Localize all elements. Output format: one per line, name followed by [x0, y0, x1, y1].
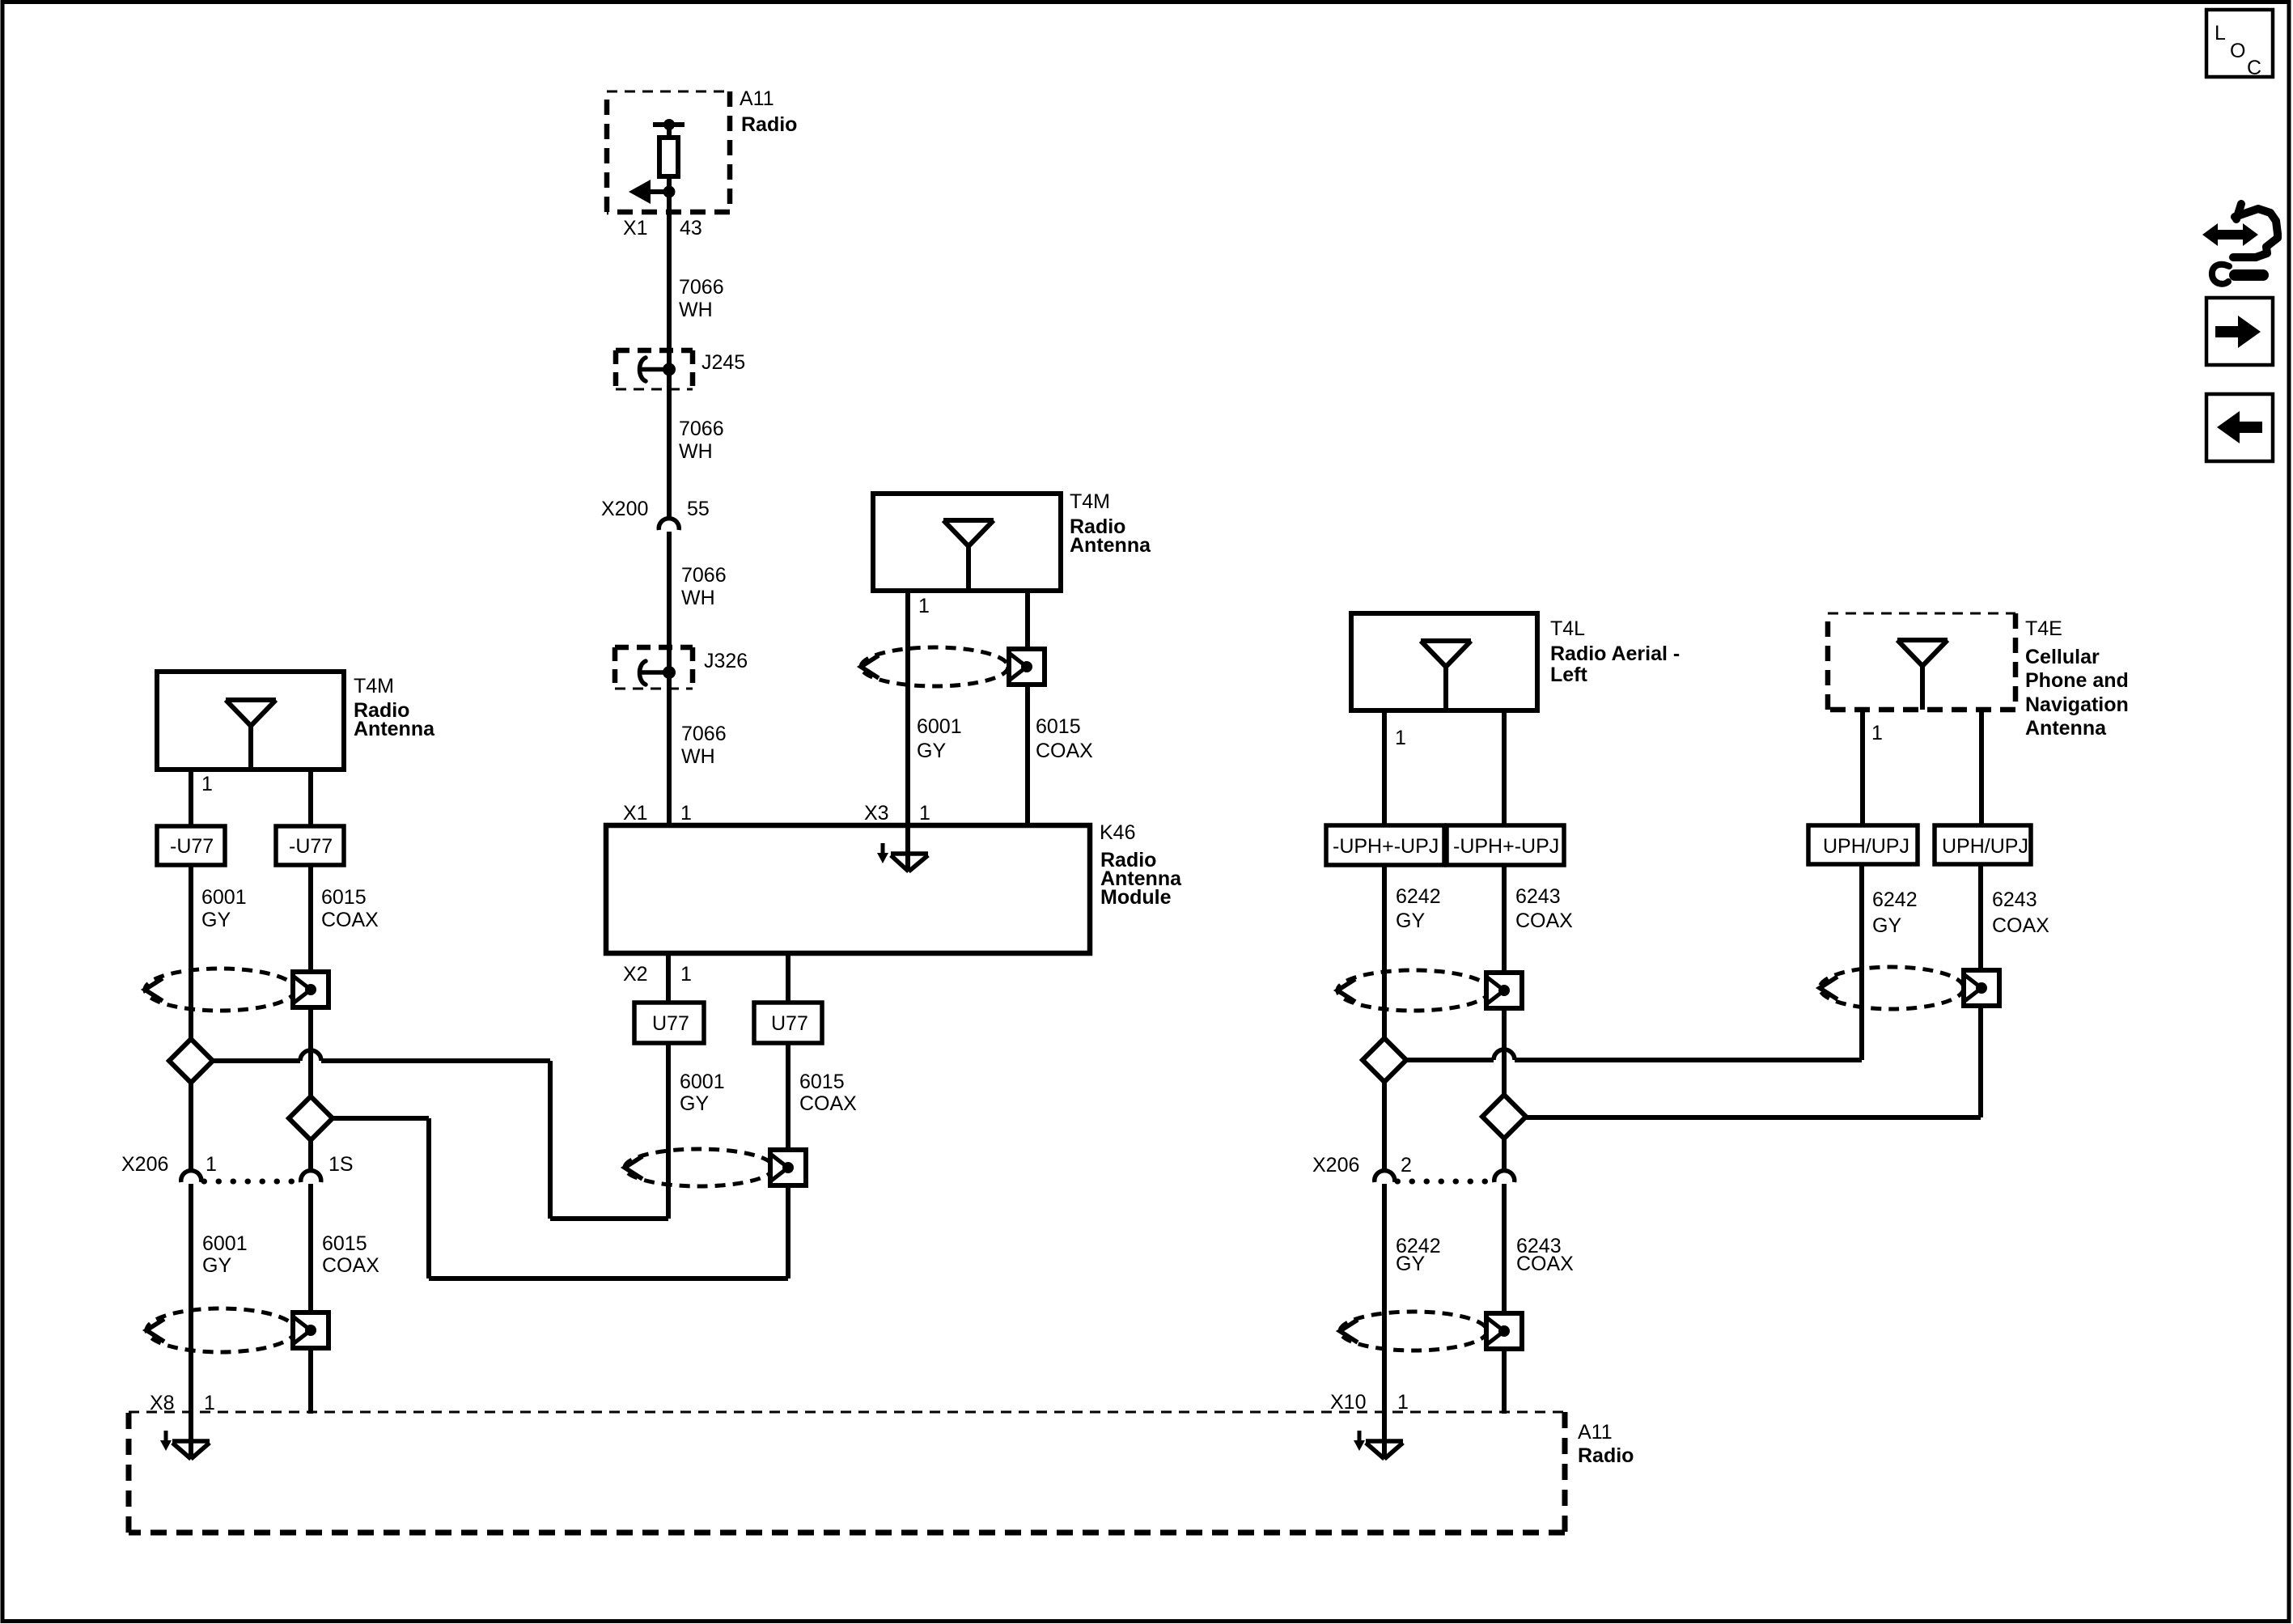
svg-text:6001: 6001	[917, 715, 962, 738]
svg-text:A11: A11	[1578, 1421, 1613, 1444]
svg-text:6242: 6242	[1396, 885, 1441, 908]
svg-text:GY: GY	[1872, 914, 1901, 937]
pin X10 1 labels	[1330, 1391, 1409, 1414]
wire T4M-1 to -U77	[189, 770, 193, 826]
wire label 6015 COAX (T4M)	[1036, 715, 1093, 762]
svg-text:1: 1	[1871, 722, 1883, 744]
svg-text:GY: GY	[202, 1254, 231, 1277]
resistor (antenna feed)	[659, 138, 678, 176]
wire T4E shield to UPH/UPJ	[1979, 710, 1984, 826]
wire diamond to X206-1	[189, 1083, 193, 1172]
svg-text:J326: J326	[704, 650, 748, 672]
svg-text:1: 1	[1397, 1391, 1409, 1414]
svg-text:U77: U77	[652, 1012, 689, 1035]
svg-text:6001: 6001	[201, 886, 247, 909]
option code -U77 (GY)	[157, 826, 225, 865]
svg-text:6242: 6242	[1872, 888, 1918, 911]
svg-text:Phone and: Phone and	[2025, 669, 2129, 692]
splice diamond (right COAX)	[1482, 1095, 1526, 1138]
wire jog down-right to center GY	[550, 1061, 668, 1219]
radio A11 component box (top)	[607, 87, 797, 212]
wire K46 X2 shield to U77	[786, 953, 790, 1004]
node junction dot	[663, 186, 676, 198]
wire label 6243 COAX (T4L)	[1515, 885, 1573, 932]
radio aerial left T4L	[1351, 613, 1680, 710]
wire label 7066 WH (1)	[679, 276, 724, 321]
svg-text:O: O	[2230, 40, 2245, 62]
pin X1 43 labels	[623, 217, 702, 240]
svg-text:GY: GY	[680, 1092, 709, 1115]
shield shell (T4L)	[1337, 970, 1522, 1011]
splice diamond (left COAX)	[289, 1096, 333, 1140]
cellular phone and navigation antenna T4E	[1828, 613, 2129, 740]
shield shell (T4E)	[1820, 967, 1999, 1009]
radio antenna T4M (center)	[873, 490, 1151, 591]
svg-text:7066: 7066	[681, 564, 727, 587]
wire T4M shield to -U77	[308, 770, 313, 826]
svg-text:Cellular: Cellular	[2025, 646, 2100, 668]
svg-text:COAX: COAX	[799, 1092, 857, 1115]
svg-text:43: 43	[680, 217, 702, 240]
splice diamond (left GY)	[169, 1039, 213, 1083]
svg-text:X10: X10	[1330, 1391, 1366, 1414]
wire A11 internal antenna feed	[667, 125, 672, 519]
svg-text:COAX: COAX	[1036, 740, 1093, 762]
svg-text:55: 55	[687, 498, 710, 520]
svg-text:7066: 7066	[679, 418, 724, 440]
wire diamond2 to X206	[1502, 1138, 1507, 1172]
wire 6242 GY (T4L)	[1382, 865, 1387, 1040]
svg-text:7066: 7066	[679, 276, 724, 299]
svg-text:6243: 6243	[1992, 888, 2037, 911]
svg-text:Radio: Radio	[741, 113, 797, 136]
wire label 6242 GY (right lower)	[1396, 1235, 1441, 1275]
svg-text:-U77: -U77	[170, 835, 214, 858]
shield shell (left)	[145, 969, 328, 1011]
pin X3 1 labels	[864, 802, 930, 825]
splice J245	[616, 350, 745, 389]
svg-text:Navigation: Navigation	[2025, 693, 2129, 716]
svg-text:6243: 6243	[1515, 885, 1561, 908]
pin X8 1 labels	[150, 1392, 215, 1414]
svg-text:Antenna: Antenna	[354, 718, 435, 740]
wire label 6243 COAX (T4E)	[1992, 888, 2049, 937]
wire label 6015 COAX (center lower)	[799, 1071, 857, 1115]
svg-text:6015: 6015	[799, 1071, 845, 1093]
svg-text:6015: 6015	[1036, 715, 1081, 738]
ground symbol inside K46	[877, 825, 928, 871]
wire label 6001 GY (left lower)	[202, 1232, 248, 1277]
shield shell (bottom left)	[146, 1308, 328, 1352]
wire label 6001 GY (T4M)	[917, 715, 962, 762]
option code -UPH+-UPJ (GY)	[1326, 825, 1444, 865]
svg-text:COAX: COAX	[1516, 1253, 1574, 1275]
svg-text:COAX: COAX	[1992, 914, 2049, 937]
wire label 7066 WH (2)	[679, 418, 724, 463]
wire 6015 COAX (left)	[308, 865, 313, 1098]
wire 6242 GY (X206 to X10)	[1382, 1184, 1387, 1458]
connector X206 (left)	[121, 1153, 354, 1182]
wire label 7066 WH (4)	[681, 723, 727, 768]
wire 7066 WH (X200 to J326)	[667, 532, 672, 825]
svg-text:WH: WH	[681, 745, 715, 768]
pin X1 1 labels (K46)	[623, 802, 692, 825]
svg-text:COAX: COAX	[1515, 910, 1573, 932]
svg-text:Antenna: Antenna	[2025, 717, 2107, 740]
wire label 6015 COAX (left lower)	[322, 1232, 379, 1277]
svg-text:WH: WH	[679, 299, 713, 321]
antenna feed top bar	[653, 119, 685, 130]
svg-text:Radio Aerial -: Radio Aerial -	[1550, 642, 1680, 665]
wire label 6015 COAX (left)	[321, 886, 379, 931]
svg-text:-UPH+-UPJ: -UPH+-UPJ	[1453, 835, 1559, 858]
svg-text:T4M: T4M	[354, 675, 394, 698]
svg-text:UPH/UPJ: UPH/UPJ	[1942, 835, 2028, 858]
svg-text:X1: X1	[623, 802, 648, 825]
wire 6015 COAX (X206 to A11)	[308, 1184, 313, 1414]
wire T4L shield to -UPH+-UPJ	[1502, 710, 1507, 826]
svg-text:1: 1	[1395, 727, 1406, 749]
svg-text:L: L	[2215, 22, 2226, 45]
svg-text:-UPH+-UPJ: -UPH+-UPJ	[1333, 835, 1439, 858]
svg-text:GY: GY	[1396, 1253, 1425, 1275]
pin X2 1 labels	[623, 963, 692, 986]
wire right diamond2 to T4E COAX	[1504, 864, 1981, 1117]
wire 6243 COAX (X206 to A11)	[1502, 1184, 1507, 1414]
svg-text:1: 1	[680, 802, 692, 825]
LOC page icon	[2206, 10, 2273, 79]
svg-text:2: 2	[1401, 1154, 1412, 1177]
shield shell (T4M center)	[861, 647, 1045, 686]
wire T4E-1 to UPH/UPJ	[1860, 710, 1865, 826]
connector X206 (right)	[1312, 1154, 1515, 1182]
svg-text:GY: GY	[201, 909, 231, 931]
ground symbol (A11 X8)	[160, 1431, 210, 1459]
wire 6015 COAX (below U77)	[786, 1043, 790, 1278]
svg-text:1: 1	[201, 773, 213, 795]
svg-text:T4E: T4E	[2025, 617, 2062, 640]
wire label 6242 GY (T4L)	[1396, 885, 1441, 932]
svg-text:X2: X2	[623, 963, 648, 986]
radio antenna T4M (left)	[157, 672, 435, 770]
wire label 6243 COAX (right lower)	[1516, 1235, 1574, 1275]
wire label 6001 GY (center lower)	[680, 1071, 725, 1115]
signal arrow to radio	[629, 180, 669, 204]
svg-text:T4L: T4L	[1550, 617, 1585, 640]
svg-text:X3: X3	[864, 802, 889, 825]
wire 6001 GY (X206 to X8)	[189, 1184, 193, 1458]
wire 6015 COAX (T4M to K46)	[1025, 591, 1030, 825]
splice diamond (right GY)	[1363, 1038, 1406, 1082]
splice J326	[615, 647, 748, 689]
svg-text:7066: 7066	[681, 723, 727, 745]
svg-text:Left: Left	[1550, 664, 1588, 686]
wire K46 X2-1 to U77	[666, 953, 671, 1004]
svg-text:1S: 1S	[328, 1153, 354, 1176]
wire label 7066 WH (3)	[681, 564, 727, 609]
svg-text:A11: A11	[740, 87, 774, 110]
wire label 6001 GY (left)	[201, 886, 247, 931]
svg-text:COAX: COAX	[322, 1254, 379, 1277]
back arrow icon	[2206, 394, 2273, 461]
option code UPH/UPJ (COAX)	[1935, 825, 2031, 864]
svg-text:6001: 6001	[680, 1071, 725, 1093]
svg-text:6015: 6015	[321, 886, 367, 909]
svg-text:X206: X206	[1312, 1154, 1359, 1177]
svg-text:6015: 6015	[322, 1232, 367, 1255]
svg-text:1: 1	[206, 1153, 217, 1176]
connector X200 pin 55	[601, 498, 710, 530]
wire diamond to X206-2	[1382, 1082, 1387, 1172]
svg-text:Module: Module	[1100, 886, 1172, 909]
svg-text:GY: GY	[917, 740, 946, 762]
ground symbol (A11 X10)	[1354, 1431, 1403, 1459]
svg-text:6001: 6001	[202, 1232, 248, 1255]
route scribble icon	[2202, 204, 2278, 284]
forward arrow icon	[2206, 298, 2273, 365]
svg-text:WH: WH	[681, 587, 715, 609]
shield shell (bottom right)	[1340, 1312, 1522, 1351]
shield shell (center lower)	[625, 1149, 806, 1186]
wire label 6242 GY (T4E)	[1872, 888, 1918, 937]
wire 6001 GY (left)	[189, 865, 193, 1041]
svg-text:Radio: Radio	[1578, 1444, 1634, 1467]
wire from left diamond with hop	[191, 1050, 550, 1061]
wire 6243 COAX (T4L)	[1502, 865, 1507, 1096]
svg-text:T4M: T4M	[1070, 490, 1110, 513]
radio A11 component box (bottom)	[129, 1412, 1634, 1533]
wire T4L-1 to -UPH+-UPJ	[1382, 710, 1387, 826]
svg-text:WH: WH	[679, 440, 713, 463]
wire jog down-right to center COAX	[311, 1118, 788, 1278]
option code UPH/UPJ (GY)	[1808, 825, 1918, 864]
svg-text:X1: X1	[623, 217, 648, 240]
option code -U77 (COAX)	[276, 826, 344, 865]
option code U77 (GY)	[634, 1003, 704, 1043]
option code U77 (COAX)	[754, 1003, 822, 1043]
svg-text:U77: U77	[771, 1012, 808, 1035]
svg-text:K46: K46	[1100, 821, 1135, 844]
svg-text:COAX: COAX	[321, 909, 379, 931]
wire 6001 GY (T4M to K46 X3)	[905, 591, 910, 825]
wire right diamond to T4E GY with hop	[1384, 864, 1862, 1060]
svg-text:1: 1	[918, 595, 930, 617]
wire diamond to X206-1S	[308, 1140, 313, 1172]
svg-text:C: C	[2247, 57, 2261, 79]
option code -UPH+-UPJ (COAX)	[1447, 825, 1564, 865]
svg-text:J245: J245	[701, 351, 745, 374]
svg-text:UPH/UPJ: UPH/UPJ	[1823, 835, 1909, 858]
svg-text:X200: X200	[601, 498, 648, 520]
wire 6001 GY (below U77)	[666, 1043, 671, 1219]
svg-text:Antenna: Antenna	[1070, 534, 1151, 557]
svg-text:GY: GY	[1396, 910, 1425, 932]
svg-text:-U77: -U77	[289, 835, 333, 858]
svg-text:X206: X206	[121, 1153, 168, 1176]
svg-text:1: 1	[919, 802, 930, 825]
radio antenna module K46	[606, 821, 1182, 953]
svg-text:1: 1	[680, 963, 692, 986]
